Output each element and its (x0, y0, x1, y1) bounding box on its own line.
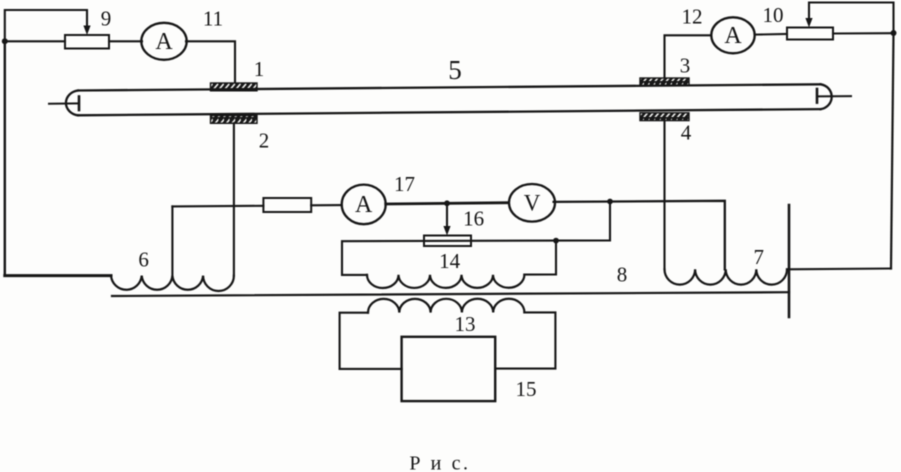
node B junction dot (891, 30, 897, 36)
contact 4 (hatched) (640, 113, 689, 121)
svg-text:1: 1 (254, 57, 265, 81)
wire top-right loop from node B to rheostat wiper (809, 3, 894, 34)
ammeter A2 (711, 17, 754, 53)
svg-text:10: 10 (763, 3, 784, 27)
wire voltmeter V to coil L7 cusp tap (554, 201, 725, 269)
wire coil L7 right end to right rail (787, 267, 891, 270)
wiper arrowhead of rheostat R10 (805, 18, 812, 28)
ammeter A1 (141, 23, 186, 60)
svg-text:A: A (724, 23, 742, 49)
svg-text:V: V (524, 190, 541, 215)
wire left rail to coil L6 (5, 274, 111, 277)
wire node D down and left to rheostat right terminal (424, 202, 610, 241)
svg-text:16: 16 (463, 207, 484, 231)
resistor R10 (rheostat) (787, 28, 833, 40)
conductor bar 8 (112, 292, 789, 296)
tube 5 right end cap (821, 84, 832, 109)
right end bar of conductor 8 (788, 205, 791, 317)
wire node A to R9 left (5, 40, 65, 42)
resistor R (series, unlabeled) (263, 198, 311, 212)
svg-text:11: 11 (203, 7, 223, 31)
left electrode lead wire (49, 102, 79, 104)
contact 2 (hatched) (211, 116, 258, 124)
resistor R9 (rheostat) (65, 35, 109, 49)
left electrode bar (78, 97, 81, 111)
coil L7 (665, 269, 788, 284)
wire R9 right to ammeter A1 (109, 40, 142, 42)
node D junction dot (607, 199, 613, 205)
svg-text:14: 14 (439, 249, 461, 273)
right electrode bar (816, 89, 819, 103)
svg-text:6: 6 (138, 248, 149, 272)
svg-text:2: 2 (259, 129, 270, 153)
wiper arrowhead of rheostat R16 (443, 226, 450, 236)
svg-text:15: 15 (516, 377, 537, 401)
wire resistor to ammeter A3 (311, 204, 342, 206)
svg-text:4: 4 (681, 121, 692, 145)
right rail wire down (891, 33, 894, 269)
node E junction dot (553, 238, 559, 244)
svg-text:12: 12 (682, 5, 703, 29)
svg-text:7: 7 (754, 245, 765, 269)
right electrode lead wire (817, 95, 851, 97)
tube 5 top wall (78, 84, 821, 90)
wire contact 4 down to coil L7 left end (663, 121, 665, 270)
coil L14 (367, 275, 524, 288)
left rail wire down (4, 41, 6, 275)
wire coil L13 right end to source box (495, 312, 555, 368)
wire node C down to rheostat R16 wiper (446, 203, 448, 227)
resistor R16 (rheostat) (424, 236, 471, 247)
svg-text:A: A (355, 192, 373, 218)
svg-text:3: 3 (680, 54, 691, 78)
svg-text:17: 17 (394, 172, 415, 196)
wire node E down to coil L14 right end (524, 241, 556, 275)
contact 1 (hatched) (211, 83, 258, 91)
wire ammeter A1 to contact 1 (186, 41, 235, 83)
node A junction dot (2, 38, 8, 44)
wire top-left loop from node to rheostat wiper (5, 10, 87, 41)
wire R10 right to node B (833, 32, 894, 34)
wire ammeter A2 to contact 3 (665, 35, 712, 78)
svg-text:5: 5 (448, 55, 462, 85)
svg-text:8: 8 (617, 263, 628, 287)
tube 5 left end cap (66, 91, 78, 116)
voltmeter V (509, 184, 555, 222)
svg-text:13: 13 (455, 312, 476, 336)
wire contact 2 down to coil L6 right end (233, 123, 235, 275)
coil L13 (368, 299, 524, 313)
svg-text:A: A (155, 29, 173, 55)
wire measuring tap down from left to coil L6 cusp (171, 206, 173, 275)
svg-text:9: 9 (101, 7, 112, 31)
wire ammeter A3 to voltmeter V (386, 203, 509, 204)
tube 5 bottom wall (78, 109, 821, 115)
ammeter A3 (342, 185, 386, 225)
coil L6 (111, 276, 234, 291)
wire coil L13 left end to source box (340, 313, 402, 369)
node C junction dot (444, 200, 450, 206)
wire tap to resistor R (172, 205, 263, 208)
wire R10 left to ammeter A2 (755, 33, 788, 36)
svg-text:Р и с.: Р и с. (409, 453, 470, 472)
contact 3 (hatched) (640, 78, 689, 86)
wiper arrowhead of rheostat R9 (83, 26, 90, 36)
source box 15 (402, 337, 496, 401)
wire rheostat left terminal to coil L14 left end (342, 241, 424, 275)
